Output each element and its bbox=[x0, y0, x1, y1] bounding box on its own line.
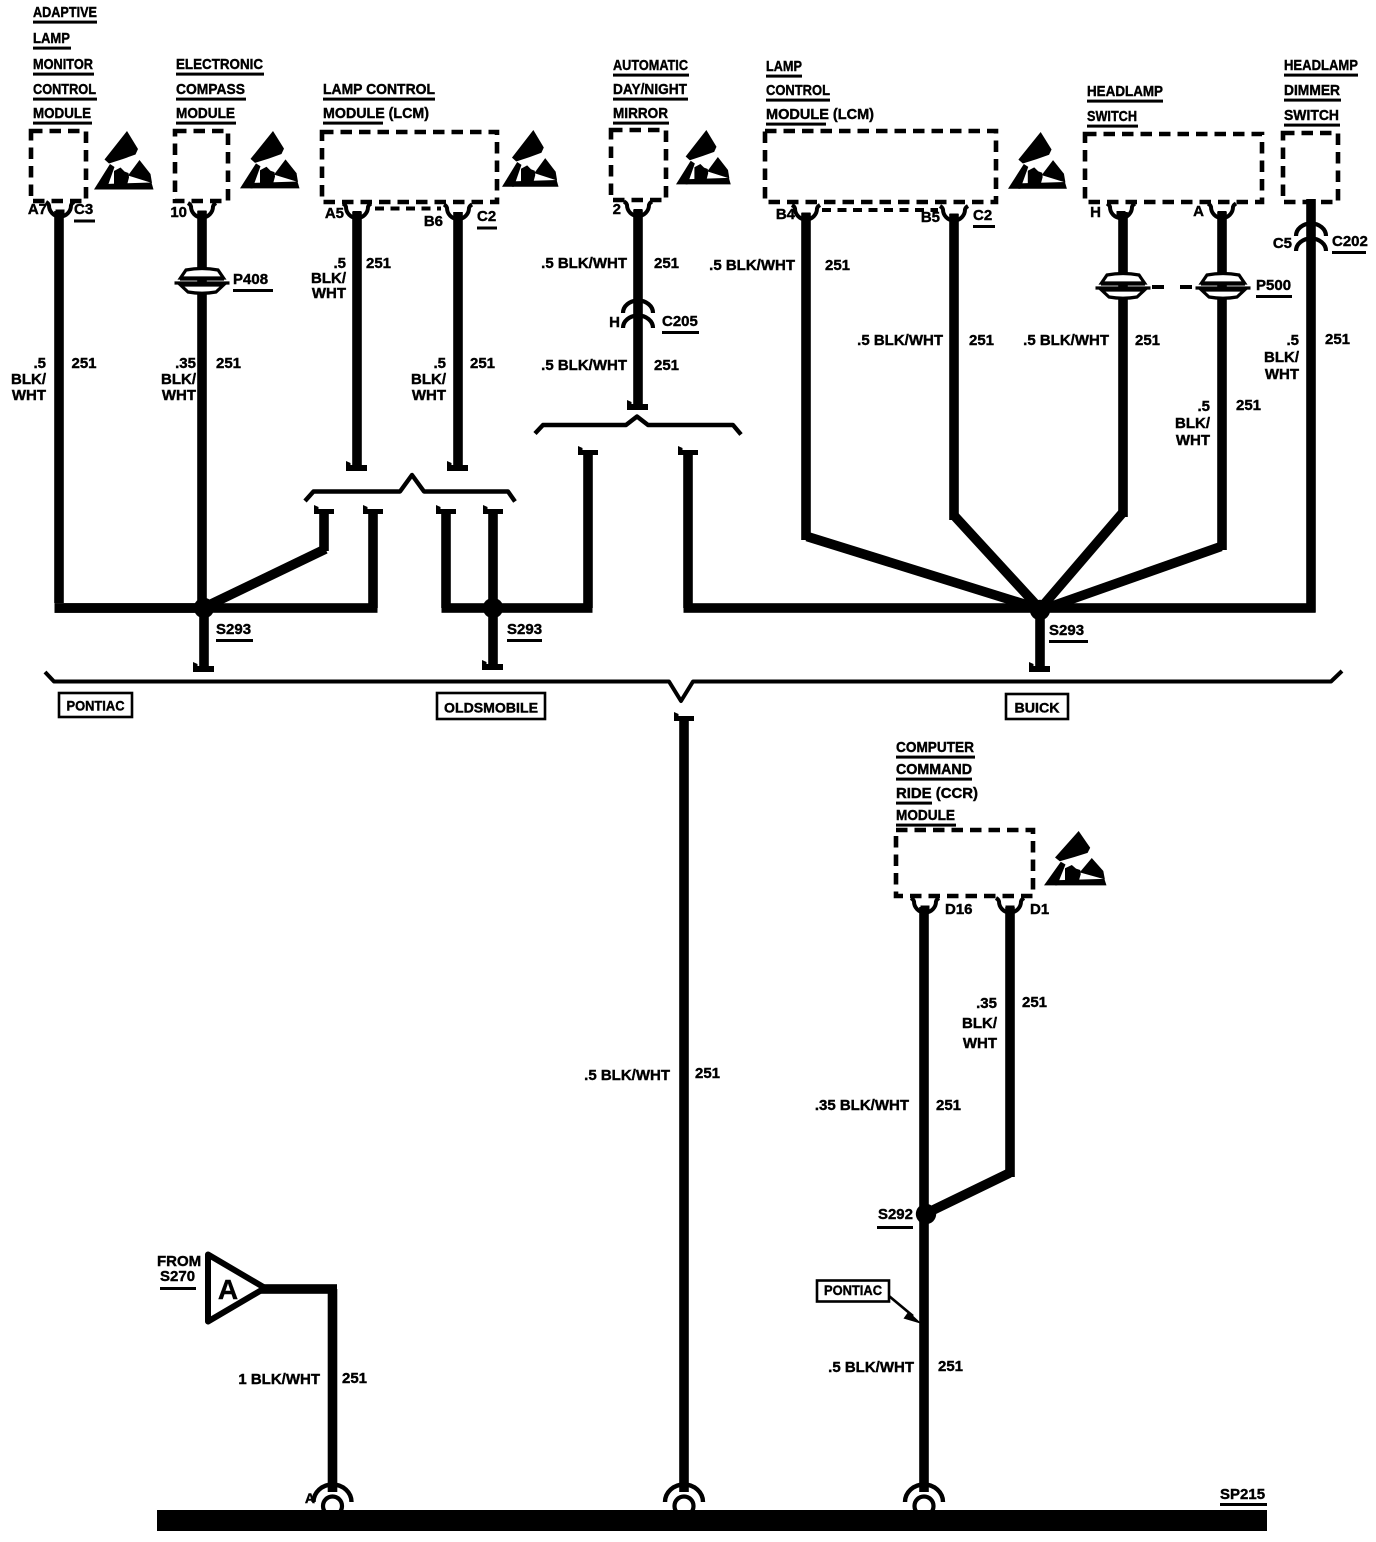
svg-text:.5 BLK/WHT: .5 BLK/WHT bbox=[828, 1359, 914, 1376]
label: wire size/color C5 wire bbox=[1264, 331, 1350, 383]
svg-text:1 BLK/WHT: 1 BLK/WHT bbox=[238, 1371, 320, 1388]
pin A5 terminal (U3) bbox=[343, 204, 371, 219]
label: wire size/color B6 wire bbox=[411, 355, 495, 404]
svg-text:AUTOMATIC: AUTOMATIC bbox=[613, 57, 688, 74]
wire: .5 BLK/WHT 251 from splice bracket to ground G SP215 bbox=[674, 712, 694, 1492]
pin 2 terminal (U4) bbox=[624, 202, 652, 217]
pin A terminal (headlamp switch) bbox=[1208, 204, 1236, 219]
svg-text:.5 BLK/WHT: .5 BLK/WHT bbox=[1023, 332, 1109, 349]
module U1: adaptive lamp monitor control module bbox=[31, 131, 86, 201]
svg-text:.35 BLK/WHT: .35 BLK/WHT bbox=[815, 1097, 909, 1114]
label: pin C5 / connector C202 bbox=[1273, 233, 1368, 254]
ESD sensitivity symbol (U4) bbox=[676, 130, 731, 184]
svg-text:251: 251 bbox=[936, 1097, 961, 1114]
grommet P408 bbox=[175, 269, 230, 294]
ground bus segment S293#3 area bbox=[684, 603, 1046, 613]
label: vehicle tag PONTIAC (S293 #1) bbox=[59, 693, 132, 717]
wire: .5 BLK/WHT 251 from U4 pin 2 through C205 down bbox=[627, 210, 648, 410]
svg-text:WHT: WHT bbox=[162, 387, 196, 404]
svg-text:S293: S293 bbox=[507, 621, 542, 638]
svg-text:C205: C205 bbox=[662, 313, 698, 330]
in-line connector C205, cavity H bbox=[623, 301, 653, 329]
svg-text:BLK/: BLK/ bbox=[11, 371, 47, 388]
svg-text:BLK/: BLK/ bbox=[1264, 349, 1300, 366]
label: ELECTRONIC COMPASS MODULE title bbox=[176, 56, 264, 125]
wire: .5 BLK/WHT 251 from headlamp switch pin A bbox=[1041, 212, 1227, 610]
label: ADAPTIVE LAMP MONITOR CONTROL MODULE title bbox=[33, 4, 97, 125]
label: S293 #2 bbox=[507, 621, 542, 642]
svg-text:HEADLAMP: HEADLAMP bbox=[1087, 83, 1163, 100]
label: P500 bbox=[1256, 277, 1292, 298]
svg-text:.5 BLK/WHT: .5 BLK/WHT bbox=[541, 357, 627, 374]
label: wire size/color B5 wire bbox=[857, 332, 994, 349]
svg-text:LAMP CONTROL: LAMP CONTROL bbox=[323, 81, 435, 98]
svg-text:10: 10 bbox=[170, 204, 187, 221]
svg-text:.5 BLK/WHT: .5 BLK/WHT bbox=[584, 1067, 670, 1084]
svg-text:DIMMER: DIMMER bbox=[1284, 82, 1340, 99]
wire stub through S293 #2 bbox=[483, 505, 503, 608]
svg-text:251: 251 bbox=[825, 257, 850, 274]
svg-text:B4: B4 bbox=[776, 206, 796, 223]
svg-text:DAY/NIGHT: DAY/NIGHT bbox=[613, 81, 687, 98]
wire stub to S293 #1 (via ground bus) bbox=[363, 505, 383, 608]
svg-text:C3: C3 bbox=[74, 201, 93, 218]
harness bundle brace #1 bbox=[305, 475, 515, 502]
svg-text:CONTROL: CONTROL bbox=[33, 81, 96, 98]
svg-text:251: 251 bbox=[342, 1370, 367, 1387]
svg-text:H: H bbox=[1090, 204, 1101, 221]
svg-text:A7: A7 bbox=[28, 201, 47, 218]
ground attachment (center) at SP215 bbox=[665, 1485, 703, 1502]
label: wire size/color center ground wire bbox=[584, 1065, 720, 1084]
wire: 1 BLK/WHT 251 from S270 triangle to ground G SP215 pin A bbox=[261, 1284, 337, 1492]
svg-text:BLK/: BLK/ bbox=[962, 1015, 998, 1032]
label: wire size/color pin 10 wire bbox=[161, 355, 241, 404]
svg-text:A5: A5 bbox=[325, 205, 344, 222]
label: COMPUTER COMMAND RIDE (CCR) MODULE title bbox=[896, 739, 978, 827]
svg-text:C202: C202 bbox=[1332, 233, 1368, 250]
label: LAMP CONTROL MODULE (LCM) #2 title bbox=[766, 58, 874, 126]
svg-text:251: 251 bbox=[695, 1065, 720, 1082]
svg-text:251: 251 bbox=[938, 1358, 963, 1375]
label: P408 bbox=[233, 271, 273, 292]
svg-text:SP215: SP215 bbox=[1220, 1486, 1265, 1503]
svg-text:C5: C5 bbox=[1273, 235, 1292, 252]
wire: .5 BLK/WHT 251 from S292 to ground SP215 bbox=[919, 1214, 929, 1492]
ground bus segment S293#1 area bbox=[55, 603, 378, 613]
svg-text:.5: .5 bbox=[1197, 398, 1210, 415]
wire: .5 BLK/WHT 251 from U3 pin B6 bbox=[447, 212, 468, 471]
pin B6 terminal (U3) bbox=[444, 205, 472, 220]
svg-text:MODULE: MODULE bbox=[176, 105, 235, 122]
ground attachment (right) at SP215 bbox=[905, 1485, 943, 1502]
svg-text:P500: P500 bbox=[1256, 277, 1291, 294]
label: FROM S270 bbox=[157, 1253, 201, 1290]
in-line connector C202, cavity C5 bbox=[1296, 223, 1326, 251]
svg-text:251: 251 bbox=[366, 255, 391, 272]
wire: stub below S293 #1 bbox=[193, 608, 214, 672]
label: pin B5 / connector C2 bbox=[921, 207, 995, 228]
svg-text:OLDSMOBILE: OLDSMOBILE bbox=[444, 700, 538, 716]
label: wire size/color A5 wire bbox=[311, 255, 391, 302]
wire: .35 BLK/WHT 251 from U2 pin 10 to S293 bbox=[197, 211, 207, 608]
ESD sensitivity symbol (U6) bbox=[1044, 831, 1106, 885]
wire: .35 BLK/WHT 251 from CCR pin D1 to S292 bbox=[927, 907, 1015, 1213]
svg-text:251: 251 bbox=[969, 332, 994, 349]
svg-text:MODULE: MODULE bbox=[33, 105, 91, 122]
harness bundle brace #2 bbox=[535, 417, 741, 435]
wire stub to S293 #1 (diagonal) bbox=[205, 505, 334, 607]
svg-text:251: 251 bbox=[1325, 331, 1350, 348]
svg-text:LAMP: LAMP bbox=[33, 30, 70, 47]
svg-text:251: 251 bbox=[216, 355, 241, 372]
label: SP215 bbox=[1220, 1486, 1267, 1506]
svg-text:A: A bbox=[1193, 203, 1204, 220]
svg-text:WHT: WHT bbox=[12, 387, 46, 404]
svg-text:C2: C2 bbox=[973, 207, 992, 224]
wire stub to S293 #3 (left side) bbox=[678, 446, 698, 608]
svg-text:SWITCH: SWITCH bbox=[1087, 108, 1137, 125]
svg-text:251: 251 bbox=[470, 355, 495, 372]
label: pin A7 / connector C3 bbox=[28, 201, 95, 223]
pin B5 terminal (U5) bbox=[940, 206, 968, 221]
pin B4 terminal (U5) bbox=[792, 205, 820, 220]
pin H terminal (headlamp switch) bbox=[1107, 204, 1135, 219]
svg-text:S293: S293 bbox=[216, 621, 251, 638]
wire: stub below S293 #2 bbox=[482, 608, 503, 670]
ESD sensitivity symbol (U2) bbox=[240, 131, 300, 188]
ground bus segment S293#2 area bbox=[442, 603, 593, 613]
svg-text:251: 251 bbox=[1135, 332, 1160, 349]
svg-text:P408: P408 bbox=[233, 271, 268, 288]
svg-text:BUICK: BUICK bbox=[1015, 700, 1060, 716]
label: wire size/color A7 wire bbox=[11, 355, 97, 404]
svg-text:SWITCH: SWITCH bbox=[1284, 107, 1339, 124]
svg-text:B6: B6 bbox=[424, 213, 443, 230]
connector face dashes (U3) bbox=[375, 207, 441, 211]
svg-text:MODULE: MODULE bbox=[896, 807, 955, 824]
switch S2: headlamp dimmer switch bbox=[1283, 133, 1338, 202]
ESD sensitivity symbol (U5) bbox=[1008, 132, 1067, 189]
svg-text:WHT: WHT bbox=[963, 1035, 997, 1052]
pin D16 terminal (CCR) bbox=[911, 898, 939, 913]
label: wire size/color A wire bbox=[1175, 397, 1261, 449]
svg-text:B5: B5 bbox=[921, 209, 940, 226]
label: pin B6 / connector C2 bbox=[424, 208, 497, 230]
svg-text:COMMAND: COMMAND bbox=[896, 761, 972, 778]
ground bus bar SP215 bbox=[157, 1510, 1267, 1531]
svg-text:.35: .35 bbox=[175, 355, 196, 372]
svg-text:251: 251 bbox=[1236, 397, 1261, 414]
svg-text:S270: S270 bbox=[160, 1268, 195, 1285]
wire: .5 BLK/WHT 251 from U5 pin B5 bbox=[949, 214, 1040, 609]
label: wire size/color B4 wire bbox=[709, 257, 850, 274]
wire: .5 BLK/WHT 251 from headlamp switch pin H bbox=[1040, 212, 1128, 609]
svg-text:C2: C2 bbox=[477, 208, 496, 225]
svg-text:WHT: WHT bbox=[1265, 366, 1299, 383]
pin A7 terminal (U1) bbox=[46, 202, 74, 217]
label: wire size/color mirror wire lower bbox=[541, 357, 679, 374]
svg-text:LAMP: LAMP bbox=[766, 58, 802, 75]
pin 10 terminal (U2) bbox=[188, 203, 216, 218]
svg-text:WHT: WHT bbox=[412, 387, 446, 404]
label: AUTOMATIC DAY/NIGHT MIRROR title bbox=[613, 57, 689, 125]
leader arrow from PONTIAC tag to wire bbox=[889, 1296, 922, 1324]
module U4: automatic day/night mirror bbox=[611, 130, 666, 200]
splice S293 (Buick) junction dot bbox=[1030, 600, 1050, 620]
svg-text:COMPUTER: COMPUTER bbox=[896, 739, 974, 756]
dashed link between P500 grommets bbox=[1152, 285, 1196, 289]
ground attachment (left, pin A) at SP215 bbox=[314, 1485, 352, 1502]
svg-text:MODULE (LCM): MODULE (LCM) bbox=[766, 106, 874, 123]
svg-text:.5 BLK/WHT: .5 BLK/WHT bbox=[541, 255, 627, 272]
svg-text:2: 2 bbox=[613, 201, 621, 218]
label: LAMP CONTROL MODULE (LCM) #1 title bbox=[323, 81, 435, 125]
wire: .5 BLK/WHT 251 from U1 pin A7 to S293 bbox=[54, 211, 207, 613]
label: S292 bbox=[877, 1206, 913, 1229]
svg-text:D16: D16 bbox=[945, 901, 973, 918]
module U5: lamp control module (LCM) #2 bbox=[765, 131, 996, 202]
wire: .35 BLK/WHT 251 from CCR pin D16 to S292 bbox=[919, 907, 929, 1214]
svg-text:BLK/: BLK/ bbox=[1175, 415, 1211, 432]
label: HEADLAMP DIMMER SWITCH title bbox=[1284, 57, 1358, 127]
module U3: lamp control module (LCM) #1 bbox=[322, 132, 497, 202]
splice S293 (Oldsmobile) junction dot bbox=[483, 598, 503, 618]
label: vehicle tag BUICK (S293 #3) bbox=[1006, 694, 1068, 719]
svg-text:BLK/: BLK/ bbox=[161, 371, 197, 388]
off-page source triangle A from S270 bbox=[208, 1255, 265, 1322]
svg-text:MODULE (LCM): MODULE (LCM) bbox=[323, 105, 429, 122]
wire: from dimmer switch through C202 to S293 bbox=[1040, 199, 1316, 613]
label: wire size/color S292 ground wire bbox=[828, 1358, 963, 1376]
svg-text:ADAPTIVE: ADAPTIVE bbox=[33, 4, 97, 21]
module U6: computer command ride (CCR) module bbox=[896, 830, 1033, 896]
vehicle split bracket line bbox=[45, 671, 1342, 701]
grommet P500 (left) bbox=[1096, 274, 1151, 299]
ESD sensitivity symbol (U3) bbox=[502, 130, 559, 187]
svg-text:.5 BLK/WHT: .5 BLK/WHT bbox=[709, 257, 795, 274]
wire stub to S293 #2 (right side) bbox=[578, 446, 598, 608]
svg-text:.5: .5 bbox=[33, 355, 46, 372]
ESD sensitivity symbol (U1) bbox=[94, 131, 154, 190]
svg-text:.5 BLK/WHT: .5 BLK/WHT bbox=[857, 332, 943, 349]
svg-text:S293: S293 bbox=[1049, 622, 1084, 639]
svg-text:ELECTRONIC: ELECTRONIC bbox=[176, 56, 263, 73]
svg-text:MONITOR: MONITOR bbox=[33, 56, 93, 73]
svg-text:D1: D1 bbox=[1030, 901, 1049, 918]
switch S1: headlamp switch bbox=[1085, 134, 1262, 202]
connector face dashes (U5) bbox=[822, 208, 938, 212]
svg-text:COMPASS: COMPASS bbox=[176, 81, 245, 98]
svg-text:H: H bbox=[609, 314, 620, 331]
svg-text:251: 251 bbox=[1022, 994, 1047, 1011]
module U2: electronic compass module bbox=[175, 131, 228, 201]
label: wire size/color mirror wire upper bbox=[541, 255, 679, 272]
wire: stub below S293 #3 bbox=[1029, 610, 1050, 672]
svg-text:A: A bbox=[218, 1274, 238, 1305]
label: vehicle tag PONTIAC (S292 wire) bbox=[817, 1281, 889, 1302]
svg-text:.5: .5 bbox=[433, 355, 446, 372]
svg-text:MIRROR: MIRROR bbox=[613, 105, 668, 122]
splice S293 (Pontiac) junction dot bbox=[194, 598, 214, 618]
pin D1 terminal (CCR) bbox=[996, 898, 1024, 913]
svg-text:.35: .35 bbox=[976, 995, 997, 1012]
wire: .5 BLK/WHT 251 from U3 pin A5 bbox=[346, 212, 367, 471]
svg-text:251: 251 bbox=[72, 355, 97, 372]
label: pin H / connector C205 bbox=[609, 313, 699, 334]
svg-text:RIDE (CCR): RIDE (CCR) bbox=[896, 785, 978, 802]
svg-text:251: 251 bbox=[654, 255, 679, 272]
label: S293 #3 bbox=[1049, 622, 1088, 643]
svg-text:.5: .5 bbox=[1286, 332, 1299, 349]
svg-text:BLK/: BLK/ bbox=[411, 371, 447, 388]
svg-text:WHT: WHT bbox=[1176, 432, 1210, 449]
svg-text:251: 251 bbox=[654, 357, 679, 374]
svg-text:S292: S292 bbox=[878, 1206, 913, 1223]
wire: .5 BLK/WHT 251 from U5 pin B4 bbox=[801, 213, 1040, 609]
label: S293 #1 bbox=[216, 621, 253, 642]
svg-text:WHT: WHT bbox=[312, 285, 346, 302]
label: HEADLAMP SWITCH title bbox=[1087, 83, 1163, 128]
grommet P500 (right) bbox=[1196, 274, 1251, 299]
svg-text:CONTROL: CONTROL bbox=[766, 82, 830, 99]
label: 1 BLK/WHT 251 bbox=[238, 1370, 367, 1388]
label: vehicle tag OLDSMOBILE (S293 #2) bbox=[437, 693, 545, 719]
splice S292 junction dot bbox=[916, 1204, 936, 1224]
label: wire size/color H wire bbox=[1023, 332, 1160, 349]
label: wire size/color D1 wire bbox=[962, 994, 1047, 1052]
label: wire size/color D16 wire bbox=[815, 1097, 961, 1114]
svg-text:PONTIAC: PONTIAC bbox=[824, 1282, 882, 1298]
wire stub to S293 #2 bbox=[436, 505, 456, 608]
svg-text:HEADLAMP: HEADLAMP bbox=[1284, 57, 1358, 74]
svg-text:PONTIAC: PONTIAC bbox=[67, 698, 125, 714]
